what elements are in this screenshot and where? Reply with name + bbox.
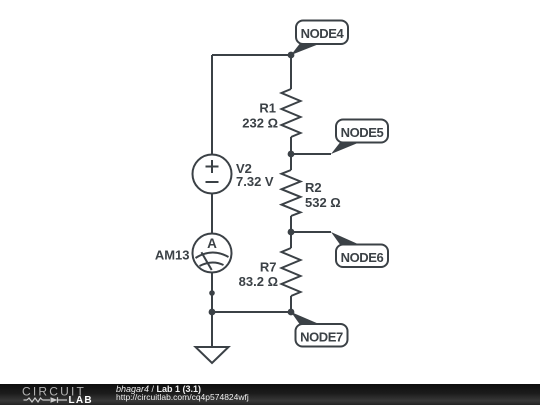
svg-text:7.32 V: 7.32 V (236, 174, 274, 189)
ground (196, 347, 229, 363)
svg-text:83.2 Ω: 83.2 Ω (239, 274, 278, 289)
wire NODE6 stub (291, 231, 331, 233)
wire NODE5 stub (291, 153, 331, 155)
voltage source V2 (193, 155, 232, 194)
svg-text:NODE7: NODE7 (300, 329, 343, 344)
node label NODE6 (331, 232, 388, 267)
wire bottom horizontal (212, 311, 291, 313)
footer bar (0, 384, 540, 405)
label R1 value (242, 101, 278, 131)
svg-text:http://circuitlab.com/cq4p5748: http://circuitlab.com/cq4p574824wfj (116, 392, 249, 402)
wire V2 to AM13 (211, 194, 213, 234)
svg-text:R7: R7 (260, 260, 277, 275)
svg-text:NODE6: NODE6 (341, 250, 384, 265)
resistor R2 (282, 154, 301, 232)
ammeter AM13 (193, 234, 232, 273)
junction node NODE5 (288, 151, 295, 158)
junction dot ground T (209, 309, 216, 316)
node label NODE7 (291, 312, 348, 347)
label R2 value (305, 180, 341, 210)
resistor R7 (282, 232, 301, 312)
svg-text:R2: R2 (305, 180, 322, 195)
svg-text:LAB: LAB (69, 395, 93, 405)
node label NODE4 (291, 21, 348, 56)
label R7 value (239, 260, 278, 290)
wire ground stem (211, 312, 213, 347)
label V2 value (236, 161, 274, 189)
svg-text:232 Ω: 232 Ω (242, 116, 278, 131)
wire AM13 bottom (211, 273, 213, 313)
svg-text:NODE4: NODE4 (301, 26, 345, 41)
node label NODE5 (331, 120, 388, 155)
svg-text:R1: R1 (259, 101, 276, 116)
junction node NODE7 (288, 309, 295, 316)
wire left vertical to V2 (211, 55, 213, 155)
junction node NODE6 (288, 229, 295, 236)
junction node NODE4 (288, 52, 295, 59)
terminal dot AM13 bottom (209, 290, 215, 296)
svg-text:NODE5: NODE5 (341, 125, 384, 140)
logo circuit glyph (24, 397, 68, 403)
svg-text:532 Ω: 532 Ω (305, 195, 341, 210)
resistor R1 (282, 55, 301, 154)
wire top horizontal (212, 54, 291, 56)
svg-text:A: A (207, 236, 217, 251)
svg-text:AM13: AM13 (155, 248, 190, 263)
